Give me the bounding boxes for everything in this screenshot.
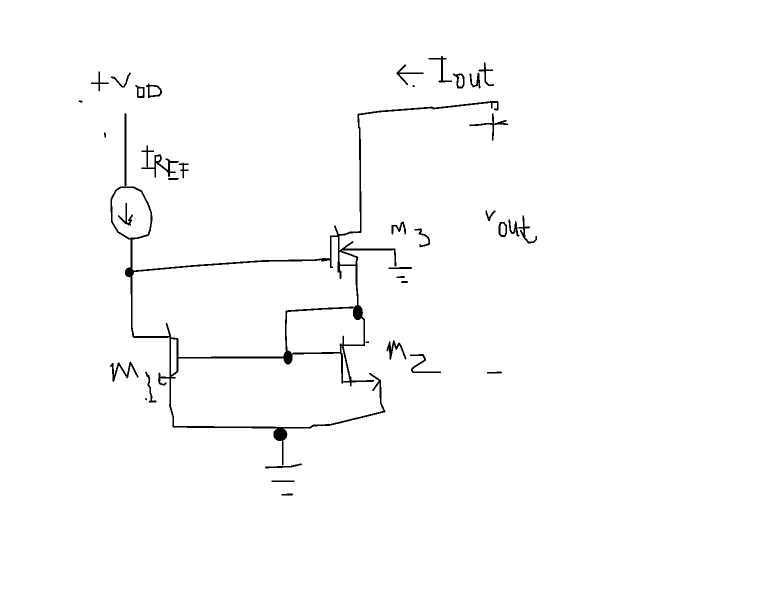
label M3 <box>392 223 429 247</box>
label Vout <box>486 211 536 242</box>
ground right (M3) <box>389 268 411 282</box>
wire M3 source down to node C <box>356 257 357 305</box>
label M1 <box>111 363 156 402</box>
wire node A down to M1 gate <box>132 277 170 337</box>
node A junction dot <box>125 268 134 278</box>
plus mark under Iout <box>470 114 507 140</box>
node D junction dot <box>273 428 287 441</box>
bottom rail wire <box>173 412 384 428</box>
wire node B to M2 gate <box>293 352 340 355</box>
stray dash near M2 drain <box>366 341 368 343</box>
wire M2 source down to rail <box>380 381 384 411</box>
wire M3 bulk to ground <box>394 249 397 266</box>
node B junction dot <box>283 351 292 365</box>
transistor M2 <box>341 337 380 391</box>
wire current source to node A <box>130 238 132 268</box>
stray dash right of M2 <box>488 372 501 374</box>
wire node C to M2 drain <box>340 317 364 345</box>
wire node D to ground <box>282 441 284 465</box>
ground bottom <box>266 464 301 494</box>
wire M3 gate lead <box>322 259 331 261</box>
wire M1 drain to node B <box>178 356 284 358</box>
wire VDD to current source <box>124 114 126 185</box>
wire node B up and over to node C <box>286 307 353 350</box>
wire M3 drain up to Iout line <box>358 115 361 232</box>
node C junction dot <box>353 305 363 320</box>
stray dot left <box>80 100 82 102</box>
transistor M1 <box>159 324 178 406</box>
label Iout with arrow <box>397 57 493 88</box>
transistor M3 <box>331 226 395 278</box>
wire Iout top rail <box>358 102 491 115</box>
label IREF <box>142 146 188 179</box>
wire node A to M3 gate <box>134 259 330 272</box>
wire M1 source to rail <box>170 406 173 427</box>
label M2 <box>387 341 440 372</box>
current source IREF <box>111 187 151 239</box>
stray tick <box>104 133 107 137</box>
label +VDD <box>92 72 162 97</box>
wire M3 drain lead <box>338 232 361 235</box>
hook at end of Iout rail <box>492 102 498 110</box>
